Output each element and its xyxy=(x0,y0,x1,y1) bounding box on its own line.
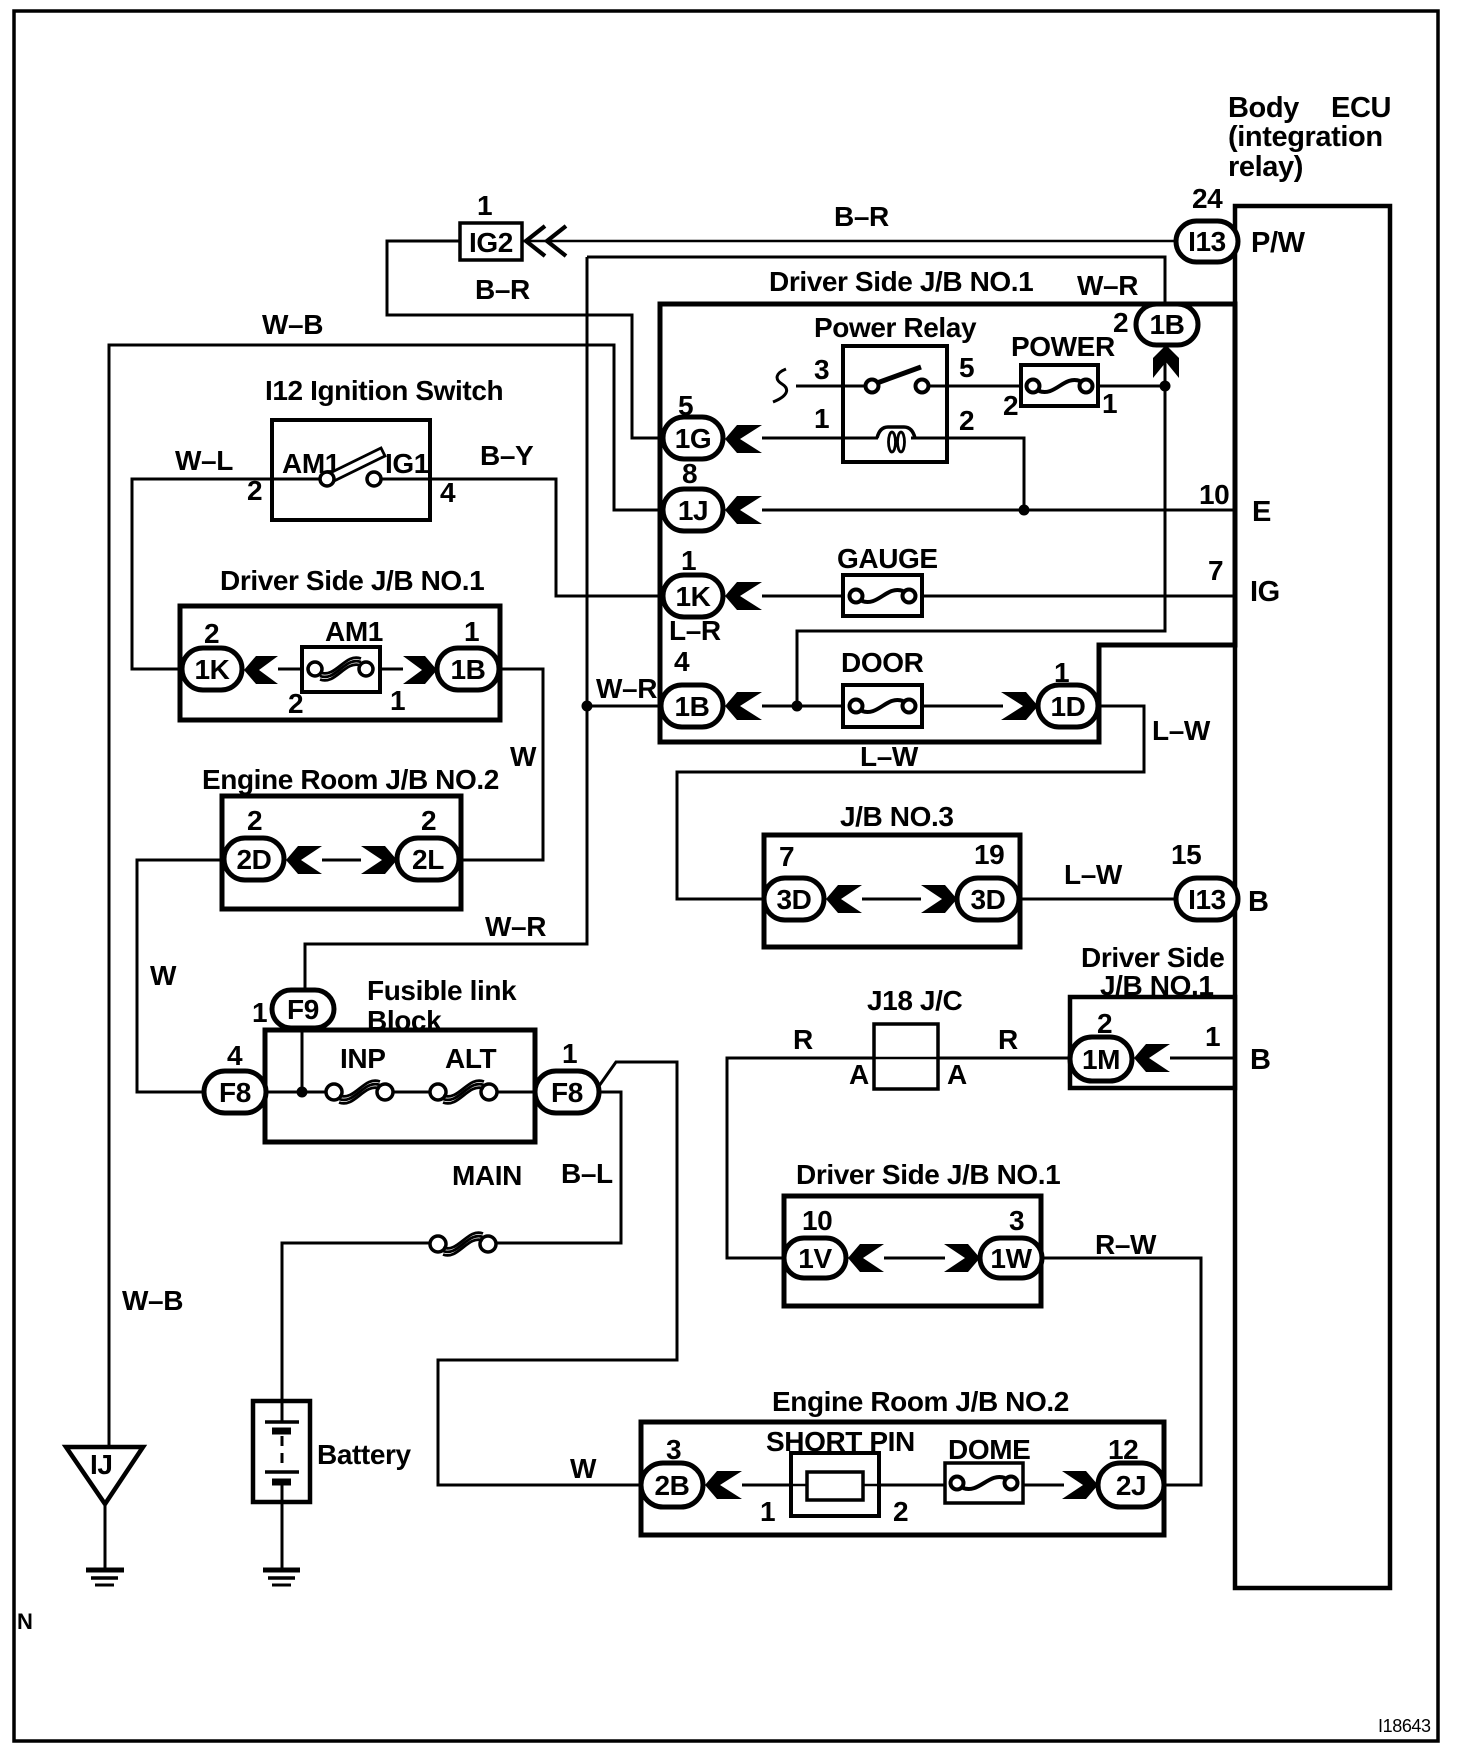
svg-text:1J: 1J xyxy=(678,495,708,526)
svg-text:1: 1 xyxy=(681,545,696,576)
svg-text:Driver Side J/B NO.1: Driver Side J/B NO.1 xyxy=(769,266,1033,297)
svg-text:R: R xyxy=(793,1024,813,1055)
svg-text:5: 5 xyxy=(678,390,693,421)
fuse AM1 xyxy=(288,616,405,719)
fuse DOOR xyxy=(843,685,922,727)
wire B-Y from switch pin4 to 1K of J/B NO.1 xyxy=(430,479,663,596)
wire IJ to ground xyxy=(104,1504,107,1569)
wire F8 to INP xyxy=(266,1091,327,1094)
Fusible link Block box xyxy=(265,1030,535,1142)
contact circles xyxy=(928,385,1021,388)
svg-text:W–R: W–R xyxy=(485,911,546,942)
connector I13 pin 24 xyxy=(1176,221,1238,262)
wire in arrow notch xyxy=(1164,360,1167,386)
svg-text:Battery: Battery xyxy=(317,1439,412,1470)
svg-text:1M: 1M xyxy=(1082,1044,1120,1075)
svg-text:2B: 2B xyxy=(655,1470,690,1501)
svg-text:2: 2 xyxy=(247,805,262,836)
arrow left at 1B(4) xyxy=(725,692,762,720)
arrow right at 2J xyxy=(1062,1471,1098,1499)
arrow right at 1B xyxy=(403,656,437,684)
svg-text:2: 2 xyxy=(1097,1008,1112,1039)
ECU box U1 Body ECU xyxy=(1228,92,1391,1588)
svg-text:3D: 3D xyxy=(777,884,812,915)
svg-text:19: 19 xyxy=(974,839,1004,870)
svg-text:Power Relay: Power Relay xyxy=(814,312,977,343)
svg-text:1B: 1B xyxy=(675,691,710,722)
wire between 1V 1W arrows xyxy=(884,1257,945,1260)
svg-text:GAUGE: GAUGE xyxy=(837,543,938,574)
svg-text:W: W xyxy=(570,1453,597,1484)
svg-text:B: B xyxy=(1248,886,1269,918)
svg-text:2: 2 xyxy=(1003,390,1018,421)
svg-text:2: 2 xyxy=(204,618,219,649)
svg-text:2: 2 xyxy=(421,805,436,836)
J/B NO.3 box xyxy=(764,835,1020,947)
svg-text:N: N xyxy=(17,1609,33,1634)
wire DOME to arrow xyxy=(1023,1484,1064,1487)
wire 1M to ECU xyxy=(1170,1057,1235,1060)
wire W from 2D to F8 xyxy=(137,860,224,1092)
connector 2L pin 2 xyxy=(397,805,459,880)
svg-text:B–R: B–R xyxy=(834,201,889,232)
connector 1V pin 10 xyxy=(784,1205,846,1278)
wire relay pin2 down to E row xyxy=(947,438,1024,510)
connector F8 pin 1 (right) xyxy=(535,1038,599,1113)
battery B1 xyxy=(253,1401,412,1502)
svg-text:2: 2 xyxy=(1113,307,1128,338)
fusible link INP xyxy=(326,1043,393,1103)
svg-text:2: 2 xyxy=(893,1496,908,1527)
wire R from J18 to 1M xyxy=(938,1057,1070,1060)
svg-text:I18643: I18643 xyxy=(1378,1716,1431,1736)
svg-text:W–B: W–B xyxy=(122,1285,183,1316)
svg-text:1K: 1K xyxy=(195,654,230,685)
svg-text:W–R: W–R xyxy=(596,673,657,704)
arrow left at 1K xyxy=(244,656,278,684)
wire arrow to AM1 fuse xyxy=(278,668,302,671)
fusible link ALT xyxy=(430,1043,497,1103)
wire MAIN to battery xyxy=(282,1243,430,1401)
connector 1J pin 8 xyxy=(663,458,723,531)
wire W-R vertical trunk xyxy=(305,257,587,990)
ignition switch I12 xyxy=(247,420,456,520)
svg-text:B–R: B–R xyxy=(475,274,530,305)
Driver Side J/B NO.1 box (L-shape) xyxy=(660,304,1235,742)
node DOOR junction xyxy=(792,701,803,712)
svg-text:1K: 1K xyxy=(676,581,711,612)
svg-text:R–W: R–W xyxy=(1095,1229,1157,1260)
arrow right at 1W xyxy=(944,1244,980,1272)
ground under battery xyxy=(263,1570,300,1585)
svg-text:1B: 1B xyxy=(1150,309,1185,340)
connector I13 pin 15 xyxy=(1176,878,1238,920)
wire between arrows xyxy=(322,859,361,862)
arrow left at 1K(jb) xyxy=(725,582,762,610)
svg-text:1: 1 xyxy=(1102,388,1117,419)
svg-text:1: 1 xyxy=(760,1496,775,1527)
svg-text:POWER: POWER xyxy=(1011,331,1115,362)
connector 1M pin 2 xyxy=(1070,1008,1132,1081)
wire L-W 3D to I13 xyxy=(1019,898,1176,901)
ground under IJ xyxy=(86,1570,124,1585)
svg-text:J18 J/C: J18 J/C xyxy=(867,985,962,1016)
svg-text:W–R: W–R xyxy=(1077,270,1138,301)
connector F9 pin 1 xyxy=(252,990,334,1028)
svg-text:DOME: DOME xyxy=(948,1434,1030,1465)
svg-text:1: 1 xyxy=(464,616,479,647)
svg-text:Driver Side: Driver Side xyxy=(1081,942,1224,973)
switch contact IG1 xyxy=(367,472,381,486)
wire B-R from IG2 to 1G xyxy=(387,241,663,438)
svg-text:ALT: ALT xyxy=(445,1043,496,1074)
wire DOOR to arrow xyxy=(922,705,1003,708)
svg-text:3: 3 xyxy=(1009,1205,1024,1236)
node E junction xyxy=(1019,505,1030,516)
svg-text:Driver Side J/B NO.1: Driver Side J/B NO.1 xyxy=(796,1159,1060,1190)
connector 1K pin 1 xyxy=(663,545,723,617)
svg-text:AM1: AM1 xyxy=(325,616,383,647)
wire W from F8 right to 2B xyxy=(438,1062,677,1485)
svg-text:1: 1 xyxy=(562,1038,577,1069)
connector 3D pin 19 xyxy=(957,839,1019,920)
svg-text:INP: INP xyxy=(340,1043,385,1074)
connector IG2 xyxy=(460,190,522,260)
Engine Room J/B NO.2 box xyxy=(222,796,461,909)
svg-text:P/W: P/W xyxy=(1251,227,1306,259)
connector 1B pin 1 xyxy=(437,616,499,690)
svg-text:1W: 1W xyxy=(990,1243,1032,1274)
short pin component xyxy=(760,1453,908,1527)
wire R from J18 to 1V xyxy=(727,1058,874,1258)
coil xyxy=(843,437,878,440)
wire L-W from 1D to 3D xyxy=(677,706,1144,899)
svg-text:IG1: IG1 xyxy=(385,448,429,479)
wire R-W from 1W to 2J xyxy=(1042,1258,1201,1485)
arrow up into 1B xyxy=(1153,345,1179,378)
svg-text:F8: F8 xyxy=(219,1077,251,1108)
svg-text:IJ: IJ xyxy=(90,1449,113,1480)
svg-text:Fusible link: Fusible link xyxy=(367,975,517,1006)
wire AM1 to right arrow xyxy=(380,668,403,671)
arrow right at 3D(19) xyxy=(921,885,957,913)
wire GAUGE to ECU (IG) xyxy=(922,595,1235,598)
svg-text:B–Y: B–Y xyxy=(480,440,534,471)
svg-text:2: 2 xyxy=(288,688,303,719)
svg-text:W–B: W–B xyxy=(262,309,323,340)
svg-text:IG2: IG2 xyxy=(469,227,513,258)
svg-text:Engine Room J/B NO.2: Engine Room J/B NO.2 xyxy=(772,1386,1069,1417)
connector F8 pin 4 (left) xyxy=(204,1040,266,1113)
connector 2B pin 3 xyxy=(641,1434,703,1507)
junction connector J18 xyxy=(793,1024,1018,1090)
wire short pin to DOME xyxy=(879,1484,945,1487)
wire F9 stem xyxy=(301,1028,304,1092)
svg-text:4: 4 xyxy=(440,477,456,508)
Driver Side J/B NO.1 box (1V 1W) xyxy=(784,1196,1041,1306)
connector 1K pin 2 xyxy=(182,618,242,690)
wire W-R top from 1B(2) xyxy=(587,257,1165,304)
connector 1G pin 5 xyxy=(663,390,723,459)
svg-text:L–W: L–W xyxy=(1152,715,1211,746)
wire POWER to junction xyxy=(1098,385,1165,388)
svg-text:2: 2 xyxy=(247,475,262,506)
wire W-R branch to 1B(4) xyxy=(587,705,661,708)
switch contact AM1 xyxy=(320,472,334,486)
svg-text:W: W xyxy=(150,960,177,991)
arrow left at 3D xyxy=(826,885,862,913)
wire between 3D arrows xyxy=(862,898,921,901)
svg-text:W–L: W–L xyxy=(175,445,233,476)
IG2 chevrons << xyxy=(526,226,566,256)
node F9 junction xyxy=(297,1087,308,1098)
svg-text:L–R: L–R xyxy=(669,615,721,646)
connector 1D pin 1 xyxy=(1038,657,1098,727)
svg-text:2L: 2L xyxy=(412,844,444,875)
ground point IJ triangle xyxy=(66,1447,143,1504)
fuse DOME xyxy=(945,1463,1023,1503)
svg-text:4: 4 xyxy=(227,1040,243,1071)
svg-text:7: 7 xyxy=(1208,555,1223,586)
svg-text:5: 5 xyxy=(959,352,974,383)
connector 3D pin 7 xyxy=(764,841,824,920)
wire to DOOR fuse xyxy=(762,705,843,708)
svg-text:1: 1 xyxy=(814,403,829,434)
wire W-L from switch pin2 to 1K left box xyxy=(132,479,272,669)
svg-text:10: 10 xyxy=(1199,479,1229,510)
wire B-R from I13 to IG2 xyxy=(522,240,1176,243)
svg-text:R: R xyxy=(998,1024,1018,1055)
wire W-B from 1J to IJ xyxy=(109,345,663,1447)
Driver Side J/B NO.1 left box xyxy=(180,606,500,720)
arrow left at 2B xyxy=(705,1471,742,1499)
svg-text:IG: IG xyxy=(1250,576,1280,608)
svg-text:1: 1 xyxy=(390,685,405,716)
svg-text:4: 4 xyxy=(674,646,690,677)
fuse GAUGE xyxy=(843,575,922,616)
wire 1G arrow to relay coil xyxy=(762,437,843,440)
wire B-L from F8 right to battery xyxy=(495,1092,621,1243)
svg-text:1B: 1B xyxy=(451,654,486,685)
arrow left at 1V xyxy=(848,1244,884,1272)
svg-text:8: 8 xyxy=(682,458,697,489)
svg-text:A: A xyxy=(947,1059,967,1090)
svg-text:W: W xyxy=(510,741,537,772)
power relay K1 xyxy=(773,346,1021,462)
fuse POWER xyxy=(1003,365,1117,421)
arrow left at 1M xyxy=(1134,1044,1170,1072)
wire 1K arrow to GAUGE xyxy=(762,595,843,598)
svg-text:1D: 1D xyxy=(1051,691,1086,722)
wire junction down to DOOR row xyxy=(797,386,1165,706)
connector 1B pin 2 (top) xyxy=(1113,304,1198,345)
arrow left at 1G xyxy=(725,425,762,453)
pin3 wire with squiggle xyxy=(796,385,866,388)
wire battery to ground xyxy=(281,1502,284,1569)
svg-text:F9: F9 xyxy=(287,994,319,1025)
svg-text:J/B NO.3: J/B NO.3 xyxy=(840,801,954,832)
svg-text:1: 1 xyxy=(477,190,492,221)
svg-text:I13: I13 xyxy=(1188,884,1226,915)
svg-text:MAIN: MAIN xyxy=(452,1160,522,1191)
svg-text:2: 2 xyxy=(959,405,974,436)
wire W from 1B to 2L xyxy=(459,669,543,860)
svg-text:10: 10 xyxy=(802,1205,832,1236)
svg-text:2J: 2J xyxy=(1116,1470,1146,1501)
svg-text:3D: 3D xyxy=(971,884,1006,915)
svg-text:7: 7 xyxy=(779,841,794,872)
connector 2D pin 2 xyxy=(224,805,284,880)
svg-text:24: 24 xyxy=(1192,183,1223,214)
wire INP to ALT xyxy=(393,1091,430,1094)
wire E row to ECU xyxy=(762,509,1235,512)
wire 2B arrow to short pin xyxy=(742,1484,791,1487)
arrow right at 1D xyxy=(1001,692,1038,720)
connector 1W pin 3 xyxy=(980,1205,1042,1278)
svg-text:1V: 1V xyxy=(798,1243,832,1274)
svg-text:L–W: L–W xyxy=(860,741,919,772)
svg-text:12: 12 xyxy=(1108,1434,1138,1465)
arrow left at 2D xyxy=(286,846,322,874)
Engine Room J/B NO.2 bottom box xyxy=(641,1422,1164,1535)
node POWER junction xyxy=(1160,381,1171,392)
svg-text:1G: 1G xyxy=(675,423,712,454)
svg-text:2D: 2D xyxy=(237,844,272,875)
node W-R junction xyxy=(582,701,593,712)
svg-text:relay): relay) xyxy=(1228,151,1303,183)
svg-text:1: 1 xyxy=(252,997,267,1028)
arrow left at 1J xyxy=(725,496,762,524)
svg-text:B–L: B–L xyxy=(561,1158,613,1189)
svg-text:Engine Room J/B NO.2: Engine Room J/B NO.2 xyxy=(202,764,499,795)
svg-text:I13: I13 xyxy=(1188,226,1226,257)
svg-text:I12 Ignition Switch: I12 Ignition Switch xyxy=(265,375,503,406)
svg-text:DOOR: DOOR xyxy=(841,647,924,678)
svg-text:Driver Side J/B NO.1: Driver Side J/B NO.1 xyxy=(220,565,484,596)
svg-text:L–W: L–W xyxy=(1064,859,1123,890)
svg-text:E: E xyxy=(1252,496,1271,528)
connector 1B pin 4 xyxy=(661,646,723,727)
svg-text:A: A xyxy=(849,1059,869,1090)
fusible link MAIN xyxy=(430,1233,496,1256)
svg-text:3: 3 xyxy=(814,354,829,385)
svg-text:(integration: (integration xyxy=(1228,121,1383,153)
svg-text:1: 1 xyxy=(1205,1021,1220,1052)
svg-text:3: 3 xyxy=(666,1434,681,1465)
wire ALT to F8 right xyxy=(497,1091,535,1094)
svg-text:1: 1 xyxy=(1054,657,1069,688)
connector 2J pin 12 xyxy=(1098,1434,1164,1507)
svg-text:15: 15 xyxy=(1171,839,1201,870)
arrow right at 2L xyxy=(361,846,397,874)
switch arm xyxy=(330,448,385,481)
svg-text:F8: F8 xyxy=(551,1077,583,1108)
Driver Side J/B NO.1 box (1M) xyxy=(1070,997,1235,1088)
svg-text:B: B xyxy=(1250,1044,1271,1076)
